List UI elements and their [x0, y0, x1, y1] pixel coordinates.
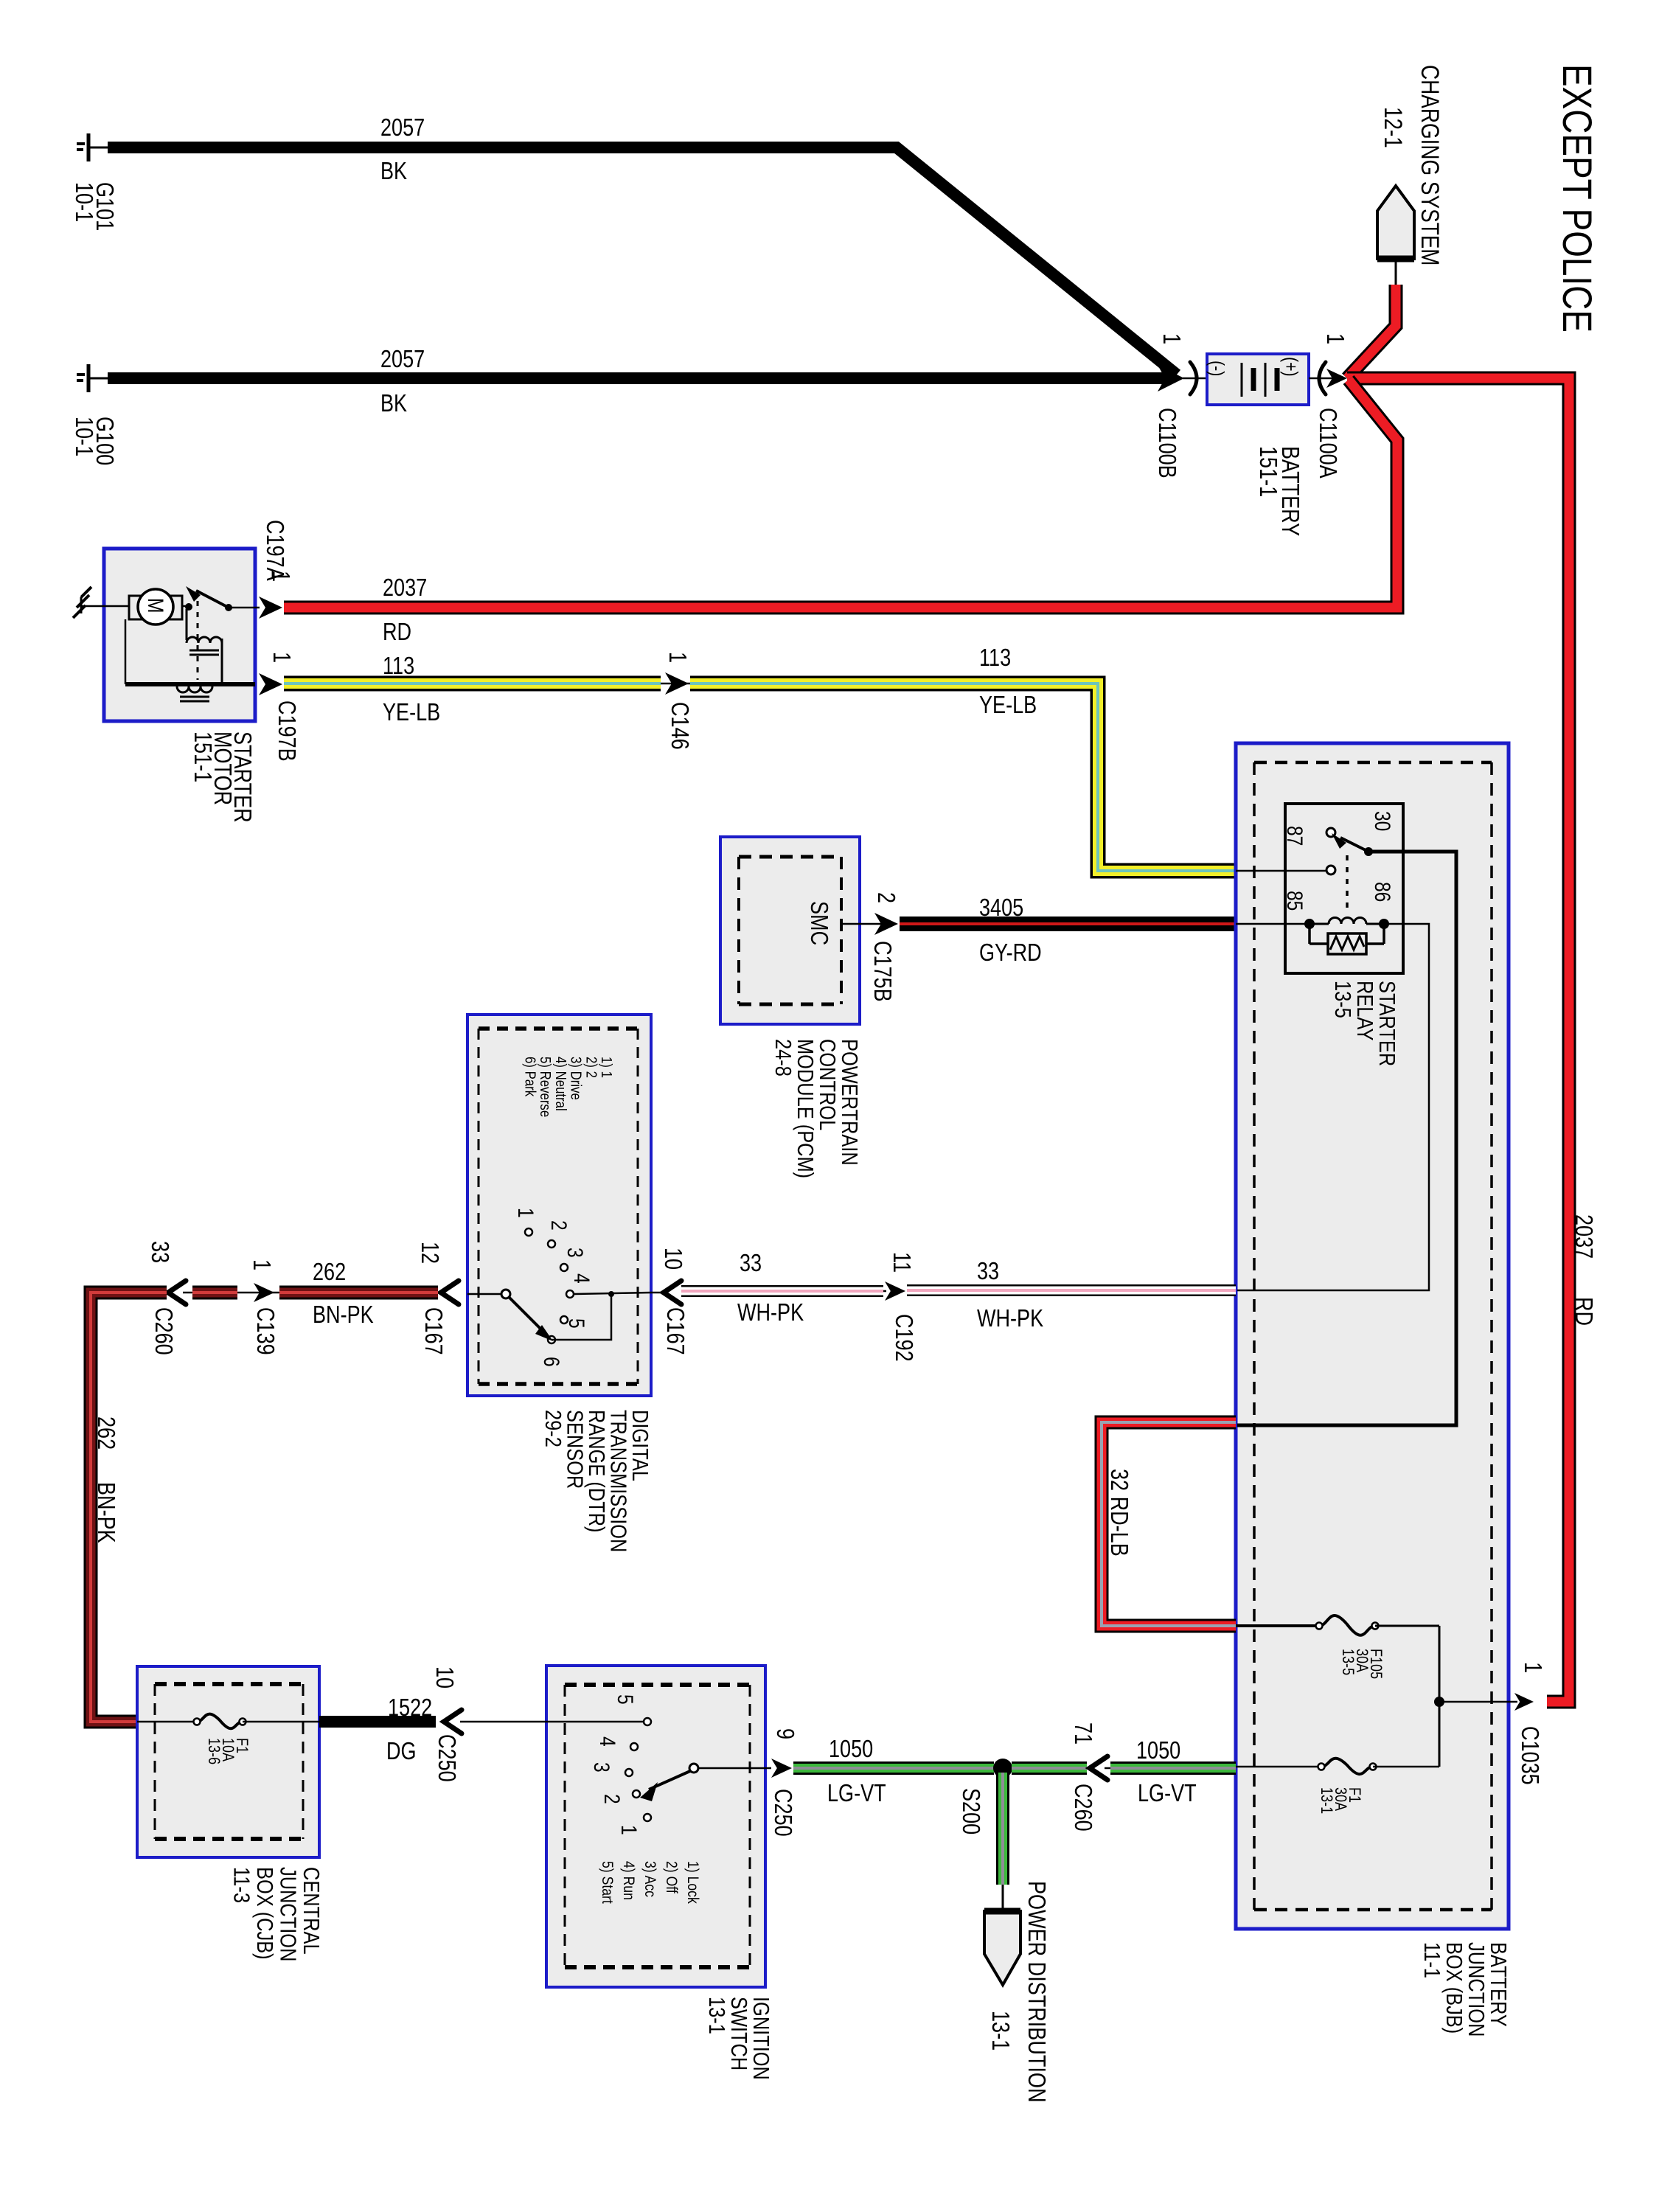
svg-text:11-3: 11-3 — [229, 1867, 254, 1903]
starter solenoid pin 1 C197B — [259, 673, 282, 695]
DTR contacts — [525, 1228, 532, 1236]
wire 2037 RD right vertical to C1035 — [1347, 378, 1569, 1702]
svg-text:13-5: 13-5 — [1339, 1649, 1357, 1675]
wire 262 BN-PK — [279, 1286, 438, 1300]
connector C260 pin 71 — [1090, 1756, 1107, 1780]
relay 86 wire to DTR — [1237, 924, 1429, 1290]
svg-text:86: 86 — [1370, 882, 1395, 902]
wire 1050 LG-VT right — [1110, 1761, 1236, 1775]
svg-text:4) Run: 4) Run — [620, 1861, 638, 1900]
svg-text:13-1: 13-1 — [703, 1997, 729, 2034]
svg-text:EXCEPT POLICE: EXCEPT POLICE — [1554, 64, 1600, 333]
splice S200 — [993, 1759, 1012, 1778]
svg-text:33: 33 — [977, 1259, 999, 1285]
svg-text:1: 1 — [1158, 333, 1184, 344]
relay 30 feed wire — [1237, 852, 1456, 1425]
svg-text:33: 33 — [146, 1241, 173, 1263]
ground G100 — [87, 364, 91, 392]
chassis ground at starter — [81, 587, 91, 597]
svg-text:1: 1 — [1321, 333, 1348, 344]
svg-text:DG: DG — [386, 1739, 417, 1765]
connector C192 pin 11 — [885, 1281, 905, 1301]
battery 151-1 — [1207, 354, 1309, 405]
svg-text:C250: C250 — [769, 1789, 796, 1837]
svg-text:1: 1 — [513, 1208, 538, 1218]
svg-text:71: 71 — [1069, 1722, 1096, 1745]
svg-text:85: 85 — [1282, 891, 1307, 911]
svg-text:6: 6 — [539, 1357, 564, 1367]
svg-text:6) Park: 6) Park — [522, 1057, 539, 1097]
wire 1522 DG — [319, 1716, 436, 1728]
svg-text:1: 1 — [1519, 1662, 1545, 1673]
svg-text:C250: C250 — [433, 1734, 459, 1782]
wire RD battery junction — [1347, 285, 1396, 378]
mech link dashed — [197, 590, 199, 680]
svg-text:3) Acc: 3) Acc — [641, 1861, 659, 1897]
wire 3405 GY-RD — [900, 917, 1236, 931]
connector C1100B — [1158, 365, 1184, 392]
GY-RD lead to pin 85 — [1236, 923, 1310, 925]
svg-text:2) Off: 2) Off — [663, 1861, 681, 1893]
wire 33 WH-PK right — [907, 1284, 1236, 1296]
svg-text:C139: C139 — [251, 1307, 278, 1355]
svg-text:CHARGING SYSTEM: CHARGING SYSTEM — [1416, 65, 1444, 266]
svg-text:262: 262 — [92, 1416, 119, 1450]
svg-text:C175B: C175B — [869, 941, 895, 1002]
svg-text:33: 33 — [740, 1251, 762, 1277]
svg-text:BK: BK — [380, 391, 407, 417]
svg-text:YE-LB: YE-LB — [383, 700, 440, 726]
svg-text:2037: 2037 — [383, 575, 427, 602]
ignition switch 13-1 — [546, 1666, 765, 1987]
svg-text:C192: C192 — [890, 1314, 917, 1362]
svg-text:9: 9 — [771, 1728, 798, 1739]
svg-text:BN-PK: BN-PK — [92, 1482, 119, 1543]
svg-text:GY-RD: GY-RD — [979, 940, 1042, 967]
svg-text:3) Drive: 3) Drive — [568, 1057, 585, 1100]
svg-text:151-1: 151-1 — [1254, 446, 1281, 497]
relay mech link — [1346, 855, 1349, 908]
svg-text:2: 2 — [546, 1220, 571, 1231]
DTR output link — [552, 1294, 611, 1340]
svg-text:151-1: 151-1 — [189, 731, 215, 782]
wire 2057 BK upper — [108, 147, 1177, 375]
wire 33 WH-PK left — [681, 1285, 883, 1297]
svg-text:WH-PK: WH-PK — [977, 1306, 1043, 1332]
svg-text:10: 10 — [431, 1666, 457, 1688]
powertrain control module PCM — [720, 837, 860, 1024]
fuse F105 30A — [1236, 1624, 1319, 1627]
svg-text:SMC: SMC — [805, 901, 832, 945]
digital transmission range sensor DTR — [467, 1015, 651, 1396]
svg-text:JUNCTION: JUNCTION — [275, 1867, 301, 1961]
connector C146 — [661, 683, 690, 685]
svg-text:5) Start: 5) Start — [599, 1861, 616, 1904]
svg-text:YE-LB: YE-LB — [979, 692, 1037, 719]
DTR switch arm — [501, 1290, 510, 1298]
svg-text:S200: S200 — [957, 1788, 984, 1834]
wire 1050 LG-VT left — [793, 1761, 994, 1775]
svg-text:29-2: 29-2 — [540, 1410, 566, 1447]
svg-text:5: 5 — [613, 1694, 638, 1705]
svg-text:2) 2: 2) 2 — [583, 1057, 600, 1078]
ground G101 — [87, 133, 91, 161]
svg-text:32 RD-LB: 32 RD-LB — [1105, 1469, 1132, 1557]
svg-text:11-1: 11-1 — [1419, 1942, 1444, 1978]
svg-text:1) Lock: 1) Lock — [684, 1861, 702, 1904]
svg-text:12-1: 12-1 — [1379, 107, 1407, 148]
svg-text:12: 12 — [416, 1242, 442, 1264]
connector C1100A — [1309, 378, 1345, 380]
starter output pin 1 C197A — [229, 607, 260, 609]
svg-text:LG-VT: LG-VT — [1138, 1781, 1197, 1807]
connector C175B pin 2 — [841, 923, 882, 925]
connector C167 pin 12 — [441, 1281, 459, 1304]
svg-text:2057: 2057 — [380, 115, 425, 142]
wire from C250 to contact 5 — [472, 1721, 643, 1723]
starter motor 151-1 — [104, 549, 255, 721]
svg-text:M: M — [143, 598, 168, 613]
svg-text:WH-PK: WH-PK — [737, 1300, 804, 1326]
charging system symbol — [1377, 186, 1414, 259]
svg-text:POWER DISTRIBUTION: POWER DISTRIBUTION — [1023, 1881, 1049, 2102]
svg-text:RD: RD — [1570, 1297, 1596, 1326]
svg-text:C1100A: C1100A — [1314, 408, 1340, 479]
svg-text:87: 87 — [1282, 826, 1307, 846]
svg-text:C146: C146 — [666, 702, 692, 750]
connector C167 pin 10 — [664, 1281, 681, 1304]
svg-text:C1100B: C1100B — [1153, 408, 1180, 479]
svg-text:2: 2 — [872, 892, 899, 903]
svg-text:1) 1: 1) 1 — [599, 1057, 616, 1078]
wire 2057 BK lower — [108, 372, 1169, 384]
svg-text:4: 4 — [595, 1736, 620, 1747]
svg-text:1522: 1522 — [388, 1695, 432, 1722]
hold-in winding — [125, 619, 127, 684]
svg-text:11: 11 — [888, 1252, 914, 1273]
svg-text:5: 5 — [564, 1318, 589, 1329]
svg-text:262: 262 — [313, 1259, 346, 1286]
svg-text:10-1: 10-1 — [70, 182, 97, 222]
ignition switch arm — [689, 1764, 698, 1773]
connector C250 pin 10 — [444, 1710, 462, 1733]
svg-text:1: 1 — [267, 571, 293, 582]
svg-text:BK: BK — [380, 159, 407, 185]
ignition contacts — [644, 1718, 651, 1725]
relay resistor — [1308, 924, 1311, 944]
solenoid switch — [185, 603, 192, 611]
fuse F1 30A — [1236, 1766, 1319, 1768]
wire 2037 RD horizontal — [284, 380, 1397, 608]
fuse F1 10A — [137, 1721, 195, 1723]
svg-text:1050: 1050 — [1136, 1738, 1180, 1764]
svg-text:13-5: 13-5 — [1329, 981, 1355, 1018]
svg-text:3: 3 — [563, 1248, 588, 1258]
relay switch arm 30 — [1364, 847, 1373, 856]
svg-text:30: 30 — [1370, 811, 1395, 831]
svg-text:3405: 3405 — [979, 895, 1023, 922]
junction to C1035 — [1434, 1697, 1444, 1707]
svg-text:C260: C260 — [150, 1307, 176, 1355]
svg-text:13-1: 13-1 — [987, 2011, 1013, 2051]
connector C260 pin 33 — [168, 1281, 186, 1304]
relay coil — [1304, 919, 1315, 929]
svg-text:24-8: 24-8 — [770, 1039, 796, 1077]
relay contact 87 — [1326, 828, 1335, 837]
relay contact from YE-LB — [1326, 866, 1335, 874]
connector C139 pin 1 — [237, 1292, 279, 1294]
svg-text:113: 113 — [383, 653, 414, 680]
central junction box CJB — [137, 1666, 319, 1857]
svg-text:1: 1 — [616, 1825, 641, 1835]
connector C250 pin 9 — [771, 1759, 792, 1778]
svg-text:5) Reverse: 5) Reverse — [538, 1057, 554, 1117]
DTR wires to pins — [467, 1293, 501, 1295]
motor M — [129, 596, 182, 619]
svg-text:1: 1 — [248, 1259, 274, 1270]
wire 32 RD-LB loop — [1102, 1422, 1236, 1626]
svg-text:(+): (+) — [1279, 357, 1301, 377]
svg-text:2057: 2057 — [380, 347, 425, 373]
svg-text:10-1: 10-1 — [70, 417, 97, 456]
battery junction box BJB — [1236, 743, 1509, 1929]
svg-text:C167: C167 — [661, 1307, 688, 1355]
svg-text:BN-PK: BN-PK — [313, 1302, 374, 1329]
svg-text:1050: 1050 — [829, 1736, 873, 1763]
svg-text:RD: RD — [383, 619, 411, 646]
svg-text:4) Neutral: 4) Neutral — [553, 1057, 570, 1111]
svg-text:1: 1 — [268, 652, 294, 663]
svg-text:3: 3 — [589, 1762, 614, 1773]
svg-text:10: 10 — [659, 1248, 686, 1270]
svg-text:LG-VT: LG-VT — [827, 1781, 886, 1807]
svg-text:1: 1 — [664, 652, 690, 663]
svg-text:113: 113 — [979, 645, 1011, 672]
svg-text:BOX (CJB): BOX (CJB) — [251, 1867, 277, 1960]
svg-text:CENTRAL: CENTRAL — [298, 1867, 324, 1955]
power distribution symbol — [984, 1911, 1020, 1985]
svg-text:13-1: 13-1 — [1318, 1787, 1335, 1814]
svg-text:2037: 2037 — [1570, 1214, 1596, 1259]
svg-text:(-): (-) — [1206, 361, 1228, 376]
starter relay 13-5 — [1285, 804, 1403, 973]
svg-text:13-6: 13-6 — [205, 1738, 223, 1764]
wire 113 YE-LB — [284, 676, 661, 692]
wire 262 BN-PK vertical to CJB — [91, 1293, 167, 1722]
svg-text:C1035: C1035 — [1516, 1726, 1543, 1785]
S200 branch to power distribution — [996, 1773, 1009, 1885]
svg-text:2: 2 — [599, 1794, 625, 1804]
pull-in winding — [186, 609, 188, 640]
svg-text:4: 4 — [569, 1273, 594, 1284]
svg-text:C197B: C197B — [273, 700, 299, 762]
svg-text:C167: C167 — [420, 1307, 446, 1355]
svg-text:C260: C260 — [1069, 1784, 1096, 1832]
